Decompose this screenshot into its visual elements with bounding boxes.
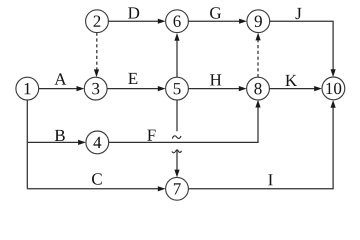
activity J arrow 9->10 (right then down) bbox=[270, 21, 336, 77]
label A bbox=[54, 73, 66, 84]
node 5 number bbox=[174, 83, 181, 94]
node 2 number bbox=[94, 16, 101, 27]
node 6 bbox=[166, 10, 189, 33]
node 5 bbox=[166, 77, 189, 100]
node 10 number bbox=[326, 83, 341, 95]
node 2 bbox=[86, 10, 109, 33]
label F bbox=[147, 130, 155, 141]
label B bbox=[55, 130, 65, 141]
label H bbox=[210, 74, 221, 85]
node 3 number bbox=[92, 83, 99, 95]
node 9 bbox=[247, 10, 270, 33]
label I bbox=[268, 174, 272, 185]
activity G arrow 6->9 bbox=[188, 19, 247, 24]
node 1 bbox=[16, 77, 39, 100]
node 3 bbox=[84, 77, 107, 100]
activity C arrow 1->7 bbox=[27, 186, 165, 191]
label J bbox=[296, 8, 302, 19]
dummy arrow 8->9 (dashed) bbox=[256, 33, 261, 78]
activity B arrow 1->4 bbox=[27, 140, 86, 145]
arrow 5->7 lower segment with arrowhead into node 7 bbox=[174, 150, 179, 178]
arrow 5->7 upper segment (stops above crossing) bbox=[176, 100, 178, 131]
activity H arrow 5->8 bbox=[188, 86, 246, 91]
dummy arrow 5->6 (solid vertical) bbox=[174, 33, 179, 77]
dummy arrow 2->3 (dashed) bbox=[94, 33, 99, 78]
node 7 bbox=[166, 177, 189, 200]
label C bbox=[92, 173, 102, 185]
label G bbox=[210, 7, 221, 19]
activity F arrow 4->8 (right then up) bbox=[109, 100, 261, 143]
crossing wave below F line at top of lower segment bbox=[172, 150, 182, 153]
node 4 number bbox=[93, 137, 101, 148]
activity E arrow 3->5 bbox=[107, 86, 166, 91]
node 6 number bbox=[174, 16, 181, 28]
activity D arrow 2->6 bbox=[108, 19, 165, 24]
node 4 bbox=[86, 131, 109, 154]
crossing tilde above F line bbox=[172, 136, 181, 139]
node 7 number bbox=[174, 183, 181, 194]
label K bbox=[285, 75, 297, 86]
node 8 bbox=[247, 77, 270, 100]
node 8 number bbox=[254, 83, 261, 95]
node 10 bbox=[322, 77, 345, 100]
activity K arrow 8->10 bbox=[269, 86, 322, 91]
node 1 number bbox=[25, 83, 31, 94]
label D bbox=[128, 7, 139, 18]
activity I arrow 7->10 (right then up) bbox=[188, 100, 335, 189]
label E bbox=[128, 73, 137, 84]
wire: vertical from node 1 down to bottom rail bbox=[26, 100, 28, 189]
activity A arrow 1->3 bbox=[39, 86, 85, 91]
node 9 number bbox=[255, 16, 262, 28]
